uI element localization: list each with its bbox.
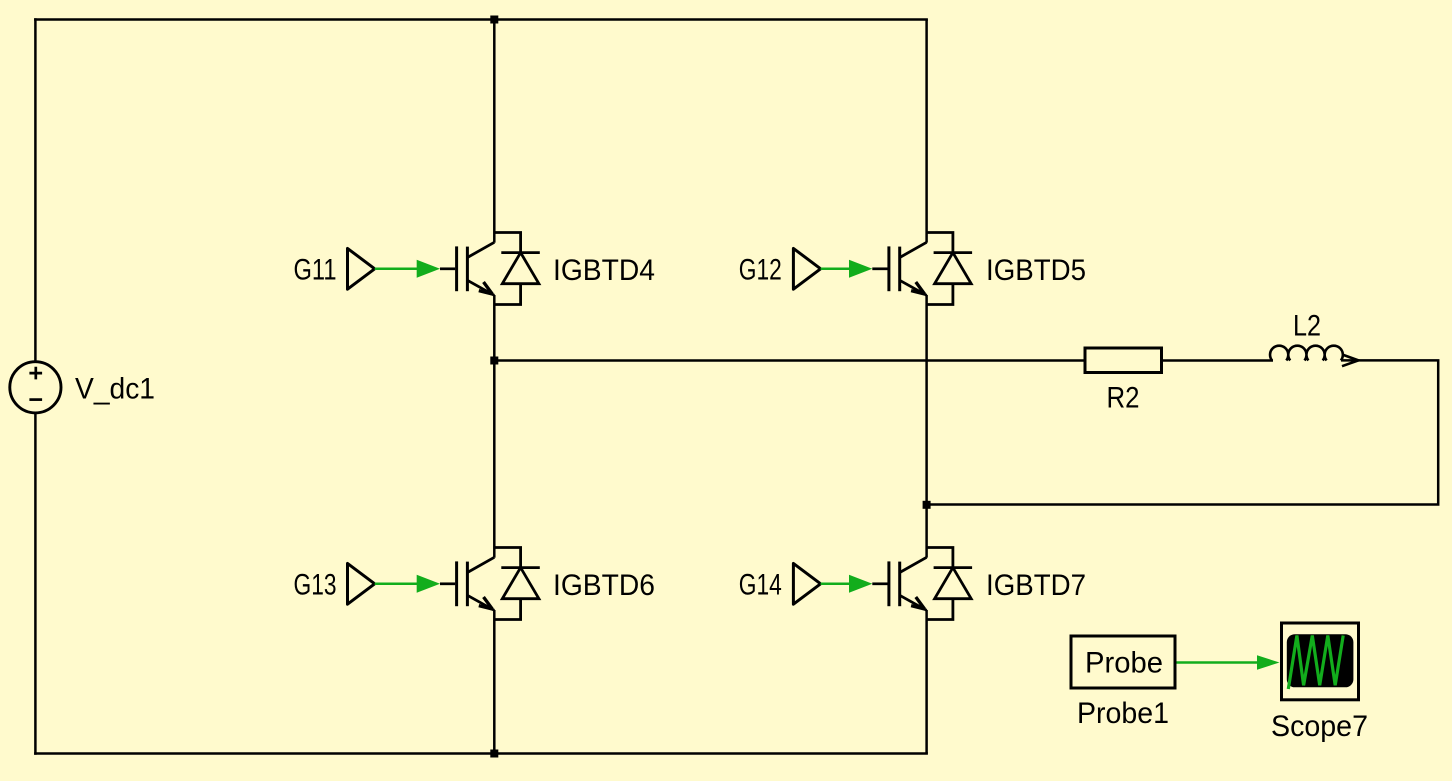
wire: right leg upper (top rail to IGBTD5) xyxy=(925,20,928,243)
IGBT-diode IGBTD6 xyxy=(457,548,655,620)
IGBT-diode IGBTD4 xyxy=(457,232,655,304)
svg-text:IGBTD5: IGBTD5 xyxy=(986,254,1086,287)
svg-text:IGBTD4: IGBTD4 xyxy=(553,254,655,287)
resistor R2 xyxy=(1085,348,1162,414)
svg-text:G12: G12 xyxy=(739,253,782,286)
svg-text:IGBTD7: IGBTD7 xyxy=(986,569,1086,602)
junction: right leg / load return xyxy=(923,501,931,509)
voltage source V_dc1 xyxy=(10,362,155,413)
gate buffer G13 xyxy=(294,563,375,604)
svg-text:IGBTD6: IGBTD6 xyxy=(553,569,655,602)
svg-text:Probe1: Probe1 xyxy=(1077,697,1169,730)
IGBT-diode IGBTD7 xyxy=(889,548,1086,620)
svg-text:G11: G11 xyxy=(294,253,337,286)
wire: top rail xyxy=(34,18,928,21)
wire: bottom rail xyxy=(34,752,928,755)
signal wire G11 to IGBTD4 gate xyxy=(375,260,456,278)
wire: left leg lower (IGBTD6 to bottom rail) xyxy=(493,610,496,754)
svg-text:G13: G13 xyxy=(294,568,337,601)
signal wire Probe1 to Scope7 xyxy=(1177,655,1280,669)
wire: left leg upper (top rail to IGBTD4) xyxy=(493,20,496,243)
wire: V_dc1 top lead up left side xyxy=(34,18,37,361)
gate buffer G11 xyxy=(294,248,375,289)
wire: right leg middle (IGBTD5 to IGBTD7) xyxy=(925,295,928,558)
svg-text:L2: L2 xyxy=(1293,309,1321,342)
wire: phase node to R2 xyxy=(494,359,1083,362)
gate buffer G12 xyxy=(739,248,821,289)
signal wire G13 to IGBTD6 gate xyxy=(375,575,456,593)
wire: left leg middle (IGBTD4 to IGBTD6) xyxy=(493,295,496,558)
scope Scope7 xyxy=(1271,623,1368,743)
gate buffer G14 xyxy=(739,563,821,604)
inductor L2 xyxy=(1270,309,1343,360)
current direction arrow at L2 output xyxy=(1342,355,1359,367)
scope screen xyxy=(1287,634,1354,687)
wire: R2 to L2 xyxy=(1163,359,1273,362)
wire: V_dc1 bottom lead down left side xyxy=(34,413,37,754)
probe Probe1 xyxy=(1071,636,1175,730)
junction: bottom rail / left leg xyxy=(490,750,498,758)
signal wire G14 to IGBTD7 gate xyxy=(821,575,888,593)
signal wire G12 to IGBTD5 gate xyxy=(821,260,888,278)
IGBT-diode IGBTD5 xyxy=(889,232,1086,304)
plus sign xyxy=(29,367,42,380)
svg-text:V_dc1: V_dc1 xyxy=(75,372,155,405)
svg-text:Probe: Probe xyxy=(1085,646,1163,679)
svg-text:G14: G14 xyxy=(739,568,782,601)
wire: L2 to load return (right, down, back to right leg) xyxy=(927,360,1439,504)
svg-text:Scope7: Scope7 xyxy=(1271,710,1368,743)
junction: top rail / left leg xyxy=(490,16,498,24)
scope trace xyxy=(1288,636,1343,690)
wire: right leg lower (IGBTD7 to bottom rail) xyxy=(925,610,928,754)
svg-text:R2: R2 xyxy=(1107,381,1140,414)
minus sign xyxy=(29,398,42,401)
junction: left leg midpoint xyxy=(490,357,498,365)
